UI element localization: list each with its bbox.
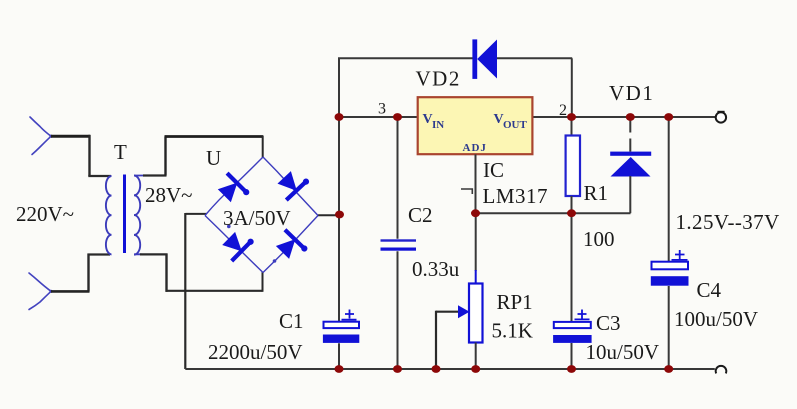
diode VD1 <box>610 152 651 177</box>
svg-text:LM317: LM317 <box>483 184 549 208</box>
capacitor C4 leads <box>668 117 670 370</box>
node rail C1 <box>335 365 344 373</box>
wire: bottom run to bridge <box>166 290 263 292</box>
wire: secondary top run to bridge <box>165 135 264 138</box>
bridge diode D-topleft <box>214 171 250 207</box>
transformer T primary winding <box>106 176 112 254</box>
wire: main row output side <box>532 116 715 118</box>
svg-text:OUT: OUT <box>503 119 528 131</box>
node R1 bottom <box>567 209 576 217</box>
node rail C3 <box>567 365 576 373</box>
wire: secondary top lead <box>143 174 167 176</box>
wire: ADJ pin vertical <box>475 154 477 213</box>
wire: secondary bottom step vertical <box>165 254 167 292</box>
input terminal bottom (220V) <box>29 273 51 310</box>
C3 plus mark <box>575 310 590 320</box>
RP1 wiper arrow <box>436 311 460 313</box>
transformer T secondary winding <box>134 176 140 255</box>
wire: bridge top lead <box>262 136 264 158</box>
potentiometer RP1 body <box>469 284 483 343</box>
svg-text:ADJ: ADJ <box>463 142 487 154</box>
resistor R1 bottom lead <box>571 196 573 213</box>
wire: bottom rail <box>185 368 715 370</box>
capacitor C1 plates <box>324 322 360 328</box>
wire: left vertical to bottom rail <box>184 213 186 369</box>
node 2 <box>567 113 576 121</box>
stray tick mark <box>461 189 472 194</box>
input terminal top (220V) <box>30 117 51 155</box>
svg-text:C3: C3 <box>596 311 621 335</box>
resistor R1 top lead <box>571 117 573 136</box>
bridge diode D-topright <box>274 166 310 202</box>
node at rectifier output <box>335 113 344 121</box>
wire: bridge left lead <box>186 213 207 215</box>
node VD1 top <box>626 113 635 121</box>
svg-text:RP1: RP1 <box>497 290 533 314</box>
wire: left step vertical <box>88 135 90 176</box>
wire: right vertical from top wire <box>571 58 573 117</box>
wire: bottom-left step vertical <box>87 254 89 292</box>
potentiometer RP1 bottom lead <box>475 343 477 370</box>
diode VD1 top lead (dashed) <box>629 117 631 152</box>
svg-text:220V~: 220V~ <box>16 202 74 226</box>
wire: bridge bottom lead <box>262 272 264 292</box>
svg-text:C1: C1 <box>279 309 304 333</box>
svg-text:10u/50V: 10u/50V <box>586 340 660 364</box>
svg-text:IN: IN <box>432 119 444 131</box>
svg-text:VD2: VD2 <box>416 67 461 91</box>
svg-text:1.25V--37V: 1.25V--37V <box>676 210 780 234</box>
svg-text:28V~: 28V~ <box>145 183 193 207</box>
wire: top wire left of VD2 <box>338 57 473 59</box>
diode VD2 <box>472 39 497 79</box>
resistor R1 body <box>566 136 580 197</box>
wire: wiper down to rail <box>435 311 437 369</box>
bridge diode D-bottomleft <box>219 227 255 263</box>
svg-text:5.1K: 5.1K <box>492 319 533 343</box>
svg-text:2: 2 <box>559 102 567 119</box>
svg-text:0.33u: 0.33u <box>412 257 460 281</box>
wire: secondary top step vertical <box>164 137 166 176</box>
svg-text:2200u/50V: 2200u/50V <box>208 340 303 364</box>
svg-text:IC: IC <box>483 158 504 182</box>
svg-text:100: 100 <box>583 227 615 251</box>
svg-text:C2: C2 <box>408 203 433 227</box>
capacitor C2 leads <box>397 117 399 369</box>
svg-text:VD1: VD1 <box>609 81 654 105</box>
node bridge right <box>335 211 344 219</box>
op-amp/regulator U1 LM317 box <box>418 97 533 154</box>
output terminal top <box>717 111 724 114</box>
secondary lead stubs <box>134 176 144 255</box>
svg-text:100u/50V: 100u/50V <box>674 307 758 331</box>
wire: bottom input lead <box>51 290 90 293</box>
svg-text:U: U <box>206 146 221 170</box>
capacitor C4 plates <box>652 262 689 270</box>
chevron joint dots <box>49 135 52 138</box>
wire: ADJ row <box>476 212 631 214</box>
diode VD1 bottom lead <box>629 176 631 213</box>
node rail RP1 <box>471 365 480 373</box>
svg-text:3A/50V: 3A/50V <box>223 206 291 230</box>
wire: left main vertical (rectifier + to rail) <box>338 58 340 369</box>
node 3 <box>393 113 402 121</box>
node rail C4 <box>664 365 673 373</box>
bridge rectifier U diamond edges <box>205 157 318 273</box>
node C4 top <box>664 113 673 121</box>
bridge diode D-bottomright <box>272 228 308 264</box>
capacitor C3 plates <box>554 322 591 328</box>
wire: primary bottom lead <box>88 253 111 255</box>
node rail C2 <box>393 365 402 373</box>
capacitor C2 plates <box>381 239 417 241</box>
transformer T core <box>123 175 126 254</box>
C4 plus mark <box>672 250 688 260</box>
wire: primary top lead <box>88 175 111 177</box>
capacitor C3 leads <box>571 213 573 369</box>
svg-text:C4: C4 <box>697 278 722 302</box>
node rail wiper <box>432 365 441 373</box>
C1 plus mark <box>342 310 357 320</box>
wire: top input lead <box>51 135 90 138</box>
bridge edge blobs <box>273 259 277 263</box>
node ADJ <box>471 209 480 217</box>
svg-text:T: T <box>114 140 127 164</box>
svg-text:3: 3 <box>378 101 386 118</box>
wire: main row input side <box>339 116 418 118</box>
wire: top wire right of VD2 <box>497 57 572 59</box>
wire: bridge right lead <box>318 214 340 216</box>
svg-text:R1: R1 <box>584 181 609 205</box>
wire: secondary bottom lead <box>140 253 168 255</box>
potentiometer RP1 top lead <box>475 213 477 271</box>
output terminal bottom <box>716 366 727 374</box>
